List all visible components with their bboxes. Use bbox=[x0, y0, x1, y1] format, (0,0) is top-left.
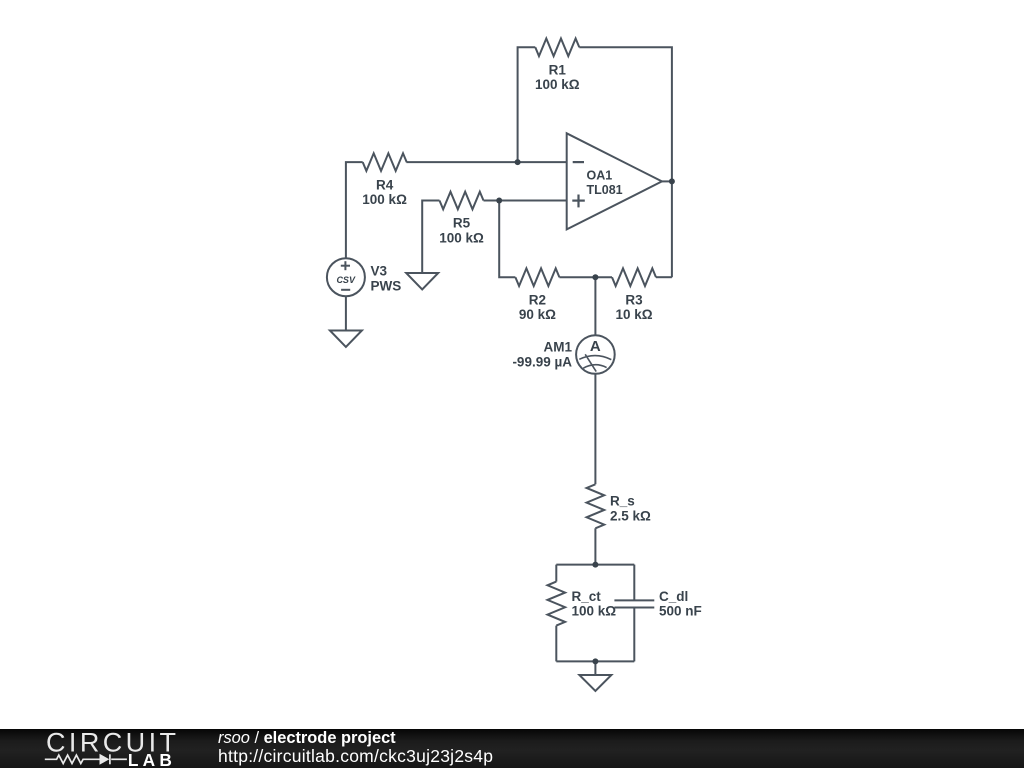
svg-text:LAB: LAB bbox=[128, 750, 176, 768]
